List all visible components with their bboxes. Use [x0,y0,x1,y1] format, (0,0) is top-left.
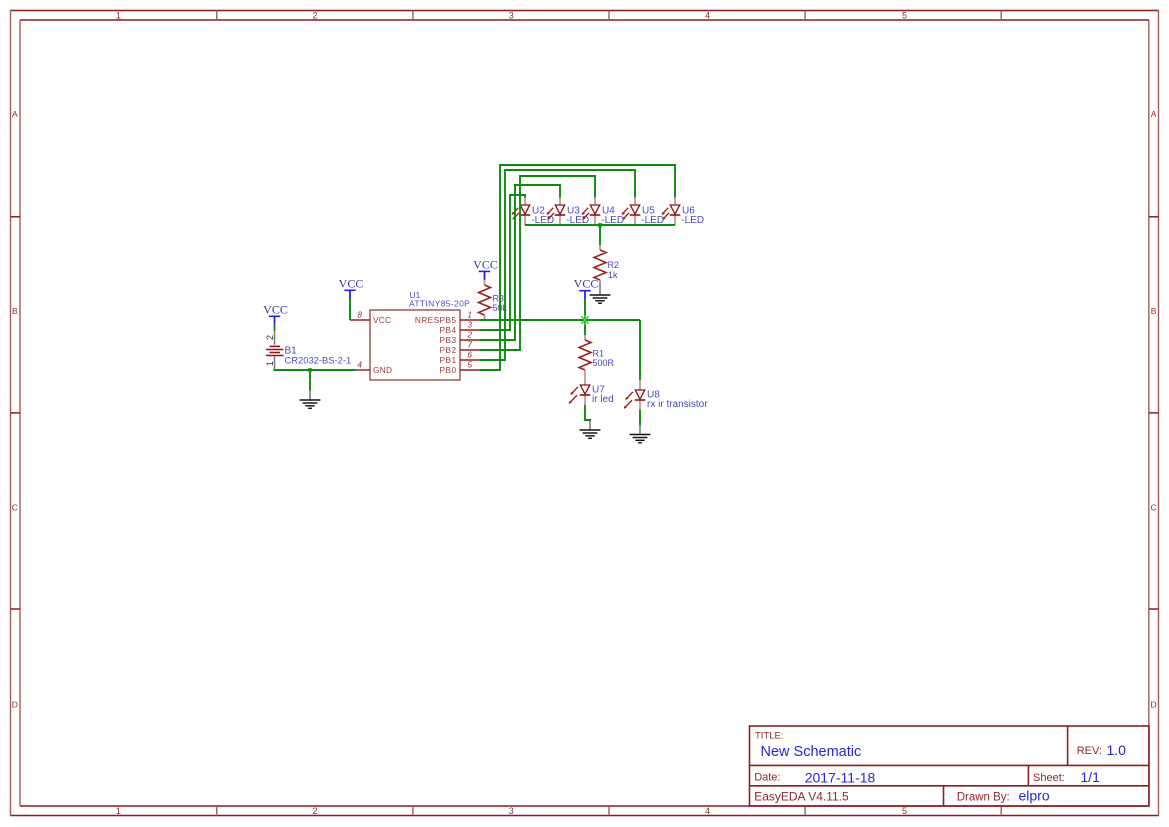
svg-text:1: 1 [265,361,275,366]
label U6 -LED [681,206,704,226]
svg-text:3: 3 [468,321,473,330]
svg-text:-LED: -LED [681,215,704,226]
wire VCC to B1 pin2 [274,325,276,331]
junction dot at battery ground tap [308,368,312,372]
ground below U8 [630,424,651,443]
svg-text:4: 4 [705,806,710,816]
svg-text:R3: R3 [493,294,505,304]
svg-text:New Schematic: New Schematic [761,744,862,760]
svg-text:PB1: PB1 [440,355,457,365]
wire stub to ground below B1 [309,370,311,391]
junction star at node NRES/VCC/R1 [581,315,588,325]
LED U3 [547,195,566,225]
svg-text:2: 2 [312,806,317,816]
svg-text:6: 6 [468,351,473,360]
svg-text:A: A [1151,109,1157,119]
svg-text:D: D [1151,700,1157,710]
resistor R3 [479,280,491,320]
svg-text:VCC: VCC [473,257,498,271]
resistor R1 [579,335,591,375]
LED U5 [622,195,641,225]
label R1 500R [593,349,615,369]
svg-text:2: 2 [265,335,275,340]
svg-text:1: 1 [468,311,472,320]
wire bus to R2 [599,225,601,245]
label R3 50k [493,294,508,314]
title block [750,726,1150,806]
svg-text:2: 2 [467,331,473,340]
svg-text:VCC: VCC [263,302,288,316]
svg-text:Drawn By:: Drawn By: [957,792,1010,804]
wire U7 cathode to ground [585,405,590,421]
IC U1 ATTINY85-20P body [370,310,460,380]
wire PB1 pin6 to U5 [480,170,635,360]
svg-text:REV:: REV: [1077,745,1102,757]
svg-text:PB3: PB3 [440,335,457,345]
LED U7 ir led [569,375,591,405]
pin 5 PB0 of U1 [440,361,480,375]
svg-text:TITLE:: TITLE: [755,730,784,741]
svg-text:A: A [12,109,18,119]
svg-text:EasyEDA V4.11.5: EasyEDA V4.11.5 [754,790,849,804]
svg-text:4: 4 [705,10,710,20]
svg-text:5: 5 [902,806,907,816]
svg-text:1/1: 1/1 [1080,769,1100,785]
svg-text:R2: R2 [608,260,620,270]
LED U6 [662,195,681,225]
pin 1 NRESPB5 of U1 [415,311,480,325]
svg-text:VCC: VCC [339,276,364,290]
label U2 -LED [531,206,554,226]
svg-text:5: 5 [468,361,473,370]
wire B1 pin1 to U1 GND [274,369,356,371]
svg-text:B: B [12,306,18,316]
wire PB4 pin3 to U2 [480,195,525,330]
svg-text:2017-11-18: 2017-11-18 [805,769,876,785]
svg-text:CR2032-BS-2-1: CR2032-BS-2-1 [285,354,352,365]
svg-text:PB4: PB4 [440,325,457,335]
svg-text:D: D [12,700,18,710]
label R2 1k [608,260,620,280]
svg-text:R1: R1 [593,349,605,359]
svg-text:elpro: elpro [1019,788,1050,804]
wire NRES to R1 [584,320,586,335]
power flag VCC (above NRES net) [574,277,599,300]
power flag VCC (above U1 pin8) [339,276,364,299]
photo transistor U8 rx ir [624,380,646,410]
label U8 rx ir transistor [647,390,708,410]
pin 2 PB3 of U1 [440,331,480,345]
svg-text:C: C [12,503,18,513]
ground below R2 [590,284,611,303]
svg-text:1.0: 1.0 [1107,742,1127,758]
ground below U7 [580,419,601,438]
svg-text:PB0: PB0 [440,365,457,375]
svg-text:1: 1 [116,10,121,20]
power flag VCC (above R3) [473,257,498,280]
svg-text:1k: 1k [608,270,618,280]
svg-text:3: 3 [509,10,514,20]
pin 3 PB4 of U1 [440,321,480,335]
svg-text:Date:: Date: [754,772,780,784]
wire PB3 pin2 to U3 [480,185,560,340]
pin 8 VCC of U1 [350,311,391,325]
svg-text:3: 3 [509,806,514,816]
svg-text:B: B [1151,306,1157,316]
pin 7 PB2 of U1 [440,341,480,355]
svg-text:VCC: VCC [373,315,391,325]
label U1 ATTINY85-20P [409,290,470,309]
label U7 ir led [592,385,614,405]
wire PB2 pin7 to U4 [480,176,595,350]
svg-text:GND: GND [373,365,392,375]
wire U8 emitter to ground [639,410,641,425]
LED U4 [582,195,601,225]
wire VCC to U1 pin8 [349,298,351,320]
pin 4 GND of U1 [356,361,393,375]
svg-text:5: 5 [902,10,907,20]
label U4 -LED [601,206,624,226]
svg-text:NRESPB5: NRESPB5 [415,315,457,325]
wire VCC to NRES net [584,299,586,320]
wire NRES branch down to U8 [639,320,641,380]
battery B1 CR2032 [265,330,283,370]
junction dot at LED bus and R2 [598,223,602,227]
svg-text:ir led: ir led [592,394,614,405]
svg-text:Sheet:: Sheet: [1033,772,1065,784]
svg-text:1: 1 [116,806,121,816]
power flag VCC (above B1) [263,302,288,325]
svg-text:VCC: VCC [574,277,599,291]
svg-text:500R: 500R [593,358,615,368]
svg-text:2: 2 [312,10,317,20]
label U3 -LED [566,206,589,226]
label B1 CR2032-BS-2-1 [285,346,352,366]
ground below B1 [300,390,321,408]
svg-text:4: 4 [358,361,363,370]
pin 6 PB1 of U1 [440,351,480,365]
label U5 -LED [641,206,664,226]
svg-text:ATTINY85-20P: ATTINY85-20P [409,299,470,309]
LED U2 [512,195,531,225]
resistor R2 [594,245,606,285]
svg-text:PB2: PB2 [440,345,457,355]
wire PB0 pin5 to U6 [480,165,675,370]
svg-text:7: 7 [468,341,473,350]
wire NRES net pin1 to U8 branch [480,319,640,321]
svg-text:C: C [1151,503,1157,513]
wire LED cathode bus [525,224,675,226]
svg-text:rx ir transistor: rx ir transistor [647,399,708,410]
svg-text:8: 8 [358,311,363,320]
